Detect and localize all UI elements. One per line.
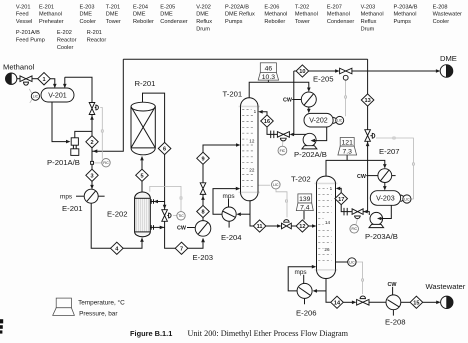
control valve T-201 bottoms xyxy=(282,220,292,229)
control valve DME product xyxy=(340,68,352,80)
signal: V-201 LIC taps xyxy=(29,89,32,94)
signal: T-201 bottoms LIC to valve xyxy=(258,184,270,186)
svg-text:2: 2 xyxy=(90,140,93,146)
svg-text:9: 9 xyxy=(201,157,204,163)
exchanger E-203 xyxy=(177,221,213,262)
svg-text:mps: mps xyxy=(295,269,307,276)
orifice flanges on reflux line xyxy=(270,131,272,139)
svg-text:FIC: FIC xyxy=(351,227,357,231)
signal: T-202 bottoms LIC to valve xyxy=(356,262,362,294)
wire: V-203 to P-203 xyxy=(379,205,392,218)
column T-201 xyxy=(223,90,261,201)
diamond stream 16 xyxy=(261,115,274,127)
svg-text:LIC: LIC xyxy=(33,95,39,99)
signal: FIC to feed control valve xyxy=(100,108,102,159)
svg-text:TIC: TIC xyxy=(178,214,184,218)
svg-text:P-203A/B: P-203A/B xyxy=(365,232,398,241)
wire: P-203 discharge / T-202 reflux xyxy=(363,212,369,215)
svg-text:LIC: LIC xyxy=(349,260,355,264)
svg-text:7: 7 xyxy=(180,247,183,253)
svg-text:P-202A/B: P-202A/B xyxy=(294,150,327,159)
signal: V-203 LIC to recycle valve xyxy=(376,138,413,199)
pump P-203A/B xyxy=(365,212,398,241)
wire: T-202 overhead to E-207 xyxy=(326,160,385,176)
wire: recycle riser from P-203 xyxy=(367,59,369,130)
page edge marks xyxy=(0,319,3,323)
flag 121/7.3 xyxy=(338,138,357,156)
svg-text:E-201: E-201 xyxy=(62,204,83,213)
diamond stream 1 xyxy=(38,73,51,85)
svg-text:3: 3 xyxy=(90,174,93,180)
svg-text:T-202: T-202 xyxy=(291,175,311,184)
control valve recycle xyxy=(365,130,375,142)
svg-text:1: 1 xyxy=(254,109,257,114)
flag stem 46/10.3 xyxy=(267,80,269,82)
wire: R-201 overhead xyxy=(143,93,204,248)
svg-text:10: 10 xyxy=(299,69,305,75)
svg-text:Figure B.1.1: Figure B.1.1 xyxy=(130,329,172,338)
wire: E-201 outlet to diamond 4 xyxy=(91,203,142,248)
pump P-201A/B xyxy=(47,138,80,167)
svg-text:13: 13 xyxy=(364,98,370,104)
legend: flag explanation xyxy=(53,298,125,317)
diamond stream 5 xyxy=(136,169,149,181)
svg-text:LIC: LIC xyxy=(337,119,343,123)
wire: stream 1 into V-201 xyxy=(50,79,55,85)
svg-text:1: 1 xyxy=(42,77,45,83)
svg-text:14: 14 xyxy=(325,220,331,225)
diamond stream 2 xyxy=(86,136,98,148)
controller LIC T-201 bottoms xyxy=(272,180,281,189)
svg-text:E-206: E-206 xyxy=(296,308,317,317)
exchanger E-201 xyxy=(60,189,105,213)
svg-text:T-201: T-201 xyxy=(223,90,243,99)
exchanger E-208 xyxy=(385,282,406,327)
wire: reflux to T-201 xyxy=(267,127,290,134)
svg-text:FIC: FIC xyxy=(280,149,286,153)
controller LIC V-201 xyxy=(31,92,39,100)
svg-text:E-207: E-207 xyxy=(379,147,400,156)
vessel V-201 xyxy=(41,88,74,102)
column T-202 xyxy=(291,175,337,279)
wire: V-201 bottoms to pump xyxy=(52,102,67,142)
product sink symbol Wastewater xyxy=(426,282,466,309)
wire: V-202 to P-202 xyxy=(312,127,327,141)
reactor R-201 xyxy=(131,79,155,155)
control valve T-202 bottoms xyxy=(357,296,369,305)
wire: T-202 bottoms xyxy=(326,279,331,303)
diamond stream 9 xyxy=(197,152,210,164)
controller TIC xyxy=(177,212,185,220)
node: T-202 bottom LIC tap xyxy=(336,261,348,263)
orifice flanges T-202 reflux xyxy=(343,208,345,216)
svg-text:22: 22 xyxy=(249,168,255,173)
diamond stream 13 xyxy=(361,94,374,106)
wire: T-201 bottoms xyxy=(250,201,253,226)
signal: T-201 reflux FIC xyxy=(282,141,284,146)
wire: recycle drop joins header xyxy=(93,59,124,151)
wire: E-202 shell nozzles xyxy=(150,201,164,203)
wire: methanol feed inlet xyxy=(17,78,20,80)
diamond stream 8 xyxy=(197,205,210,217)
diamond stream 12 xyxy=(296,220,309,232)
exchanger E-205 xyxy=(283,75,334,107)
control valve T-202 reflux xyxy=(352,209,363,219)
diamond stream 17 xyxy=(335,193,348,205)
svg-text:CW: CW xyxy=(283,98,293,104)
svg-text:E-202: E-202 xyxy=(107,210,128,219)
wire: recycle top header xyxy=(123,58,367,60)
svg-text:6: 6 xyxy=(163,147,166,153)
svg-text:46: 46 xyxy=(265,65,273,72)
svg-text:CW: CW xyxy=(388,282,398,288)
svg-text:V-201: V-201 xyxy=(48,92,67,100)
svg-text:139: 139 xyxy=(299,196,311,203)
wire: P-202 discharge header xyxy=(294,71,307,134)
diamond stream 10 xyxy=(296,65,309,77)
wire: E-204 vapor return xyxy=(213,189,236,215)
svg-text:7.3: 7.3 xyxy=(342,149,352,156)
diamond stream 11 xyxy=(253,220,266,232)
controller FIC T-202 reflux xyxy=(350,225,359,234)
valve on methanol feed xyxy=(20,76,32,85)
svg-text:V-202: V-202 xyxy=(309,117,328,125)
wire: recycle into V-201 top xyxy=(64,77,66,84)
svg-text:7.4: 7.4 xyxy=(300,204,310,211)
flow element square on feed header xyxy=(91,161,94,164)
svg-text:CW: CW xyxy=(177,226,187,232)
svg-text:DME: DME xyxy=(440,54,457,63)
svg-text:mps: mps xyxy=(223,193,235,200)
svg-text:14: 14 xyxy=(334,301,341,307)
svg-text:8: 8 xyxy=(201,210,204,216)
svg-text:Methanol: Methanol xyxy=(3,62,35,71)
flag 139/7.4 xyxy=(296,194,313,211)
exchanger E-206 xyxy=(295,269,317,317)
signal: T-202 reflux FIC xyxy=(356,219,357,225)
diamond stream 3 xyxy=(86,169,98,181)
wire: bottoms to E-208 and wastewater xyxy=(343,301,352,303)
diamond stream 6 xyxy=(158,142,171,154)
control valve TIC bypass xyxy=(162,210,171,222)
signal: V-202 LIC to DME valve xyxy=(345,80,347,116)
legend label block row 2 xyxy=(16,30,107,51)
controller LIC T-202 bottoms xyxy=(348,258,356,266)
wire: T-201 overhead to E-205 xyxy=(249,82,309,97)
exchanger E-202 with hatched shell xyxy=(107,192,150,237)
svg-text:FIC: FIC xyxy=(103,161,109,165)
svg-text:E-203: E-203 xyxy=(193,253,214,262)
diamond stream 7 xyxy=(175,242,188,254)
svg-text:121: 121 xyxy=(342,140,354,147)
svg-text:Wastewater: Wastewater xyxy=(426,282,466,291)
svg-text:26: 26 xyxy=(324,247,330,252)
controller FIC reflux T-201 xyxy=(278,146,287,155)
flag stem 121/7.3 xyxy=(346,155,348,160)
legend label block row 1 xyxy=(16,4,462,32)
svg-text:V-202DMERefluxDrum: V-202DMERefluxDrum xyxy=(196,4,212,32)
wire: bottoms to T-202 feed xyxy=(266,225,278,227)
wire: vertical feed/recycle header at x92 xyxy=(91,115,93,190)
wire: DME product line xyxy=(294,70,336,72)
svg-text:15: 15 xyxy=(413,301,419,307)
svg-text:Unit 200: Dimethyl Ether Proce: Unit 200: Dimethyl Ether Process Flow Di… xyxy=(188,329,349,338)
svg-text:12: 12 xyxy=(299,224,305,230)
wire: E-206 vapor return xyxy=(288,267,312,291)
svg-text:Pressure, bar: Pressure, bar xyxy=(79,310,118,317)
svg-text:E-208: E-208 xyxy=(385,318,406,327)
svg-text:E-205: E-205 xyxy=(313,75,334,84)
controller FIC feed xyxy=(102,159,110,167)
wire: E-203 up to T-201 feed xyxy=(203,145,237,221)
svg-text:LIC: LIC xyxy=(273,183,279,187)
svg-text:1: 1 xyxy=(330,186,333,191)
svg-text:P-201A/B: P-201A/B xyxy=(47,158,80,167)
svg-text:R-201: R-201 xyxy=(135,79,156,88)
svg-text:E-204: E-204 xyxy=(221,233,242,242)
diamond stream 4 xyxy=(111,242,124,254)
wire: E-205 to V-202 xyxy=(308,107,310,110)
diamond stream 15 xyxy=(410,296,423,308)
svg-text:12: 12 xyxy=(249,138,255,143)
wire: P-201 discharge xyxy=(75,131,92,137)
wire: E-207 to V-203 xyxy=(384,183,386,187)
svg-text:17: 17 xyxy=(338,197,344,203)
exchanger E-207 xyxy=(357,147,400,182)
svg-text:LIC: LIC xyxy=(404,197,410,201)
flag 46/10.3 xyxy=(258,63,278,81)
wire: E-202 to diamond 5 to R-201 xyxy=(141,160,143,192)
check valve on E-203 outlet xyxy=(200,183,206,195)
svg-text:Temperature, °C: Temperature, °C xyxy=(78,299,125,307)
flag stem 139/7.4 xyxy=(303,211,305,220)
svg-text:10.3: 10.3 xyxy=(262,74,275,81)
control valve T-201 reflux xyxy=(277,132,289,141)
signal: TIC bypass E-202 xyxy=(173,215,177,217)
svg-text:V-203: V-203 xyxy=(376,195,395,203)
exchanger E-204 xyxy=(221,193,242,242)
pump P-202A/B xyxy=(294,133,327,159)
control valve on recycle to V-201 xyxy=(89,103,98,115)
drum V-203 xyxy=(370,191,411,206)
svg-text:11: 11 xyxy=(257,224,263,230)
product sink symbol DME xyxy=(440,54,457,77)
svg-text:16: 16 xyxy=(264,119,270,125)
svg-text:mps: mps xyxy=(60,194,72,201)
svg-text:5: 5 xyxy=(140,173,143,179)
drum V-202 xyxy=(304,113,344,127)
diamond stream 14 xyxy=(331,296,344,308)
feed source symbol Methanol xyxy=(6,73,17,84)
svg-text:CW: CW xyxy=(357,174,367,180)
